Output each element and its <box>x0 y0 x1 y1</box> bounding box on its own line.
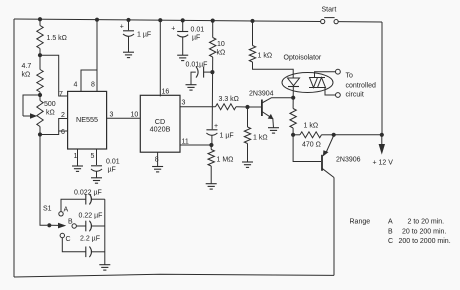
capacitor C2 1 uF bypass <box>120 20 151 52</box>
resistor R1 1.5 k&#937; <box>37 19 67 55</box>
svg-text:circuit: circuit <box>346 92 364 99</box>
U1 pin labels <box>59 82 114 161</box>
capacitor C8 2.2 uF (range C) <box>62 236 105 258</box>
svg-text:B: B <box>388 228 393 235</box>
terminal output bottom <box>336 93 341 98</box>
wire S1 capacitor bus to ground <box>104 199 106 265</box>
node R2/potentiometer junction <box>38 93 42 97</box>
node R10/Q2 emitter junction <box>332 133 336 137</box>
node rail/C2 junction <box>126 18 130 22</box>
svg-text:470 Ω: 470 Ω <box>302 142 321 149</box>
node LED cathode / Q1 collector junction <box>291 96 295 100</box>
ground at Q1 emitter <box>268 127 279 133</box>
svg-text:A: A <box>388 219 393 226</box>
svg-text:10: 10 <box>131 112 139 119</box>
svg-text:1 µF: 1 µF <box>137 32 151 39</box>
svg-text:To: To <box>346 73 354 80</box>
capacitor C6 0.022 uF (range A) <box>61 190 105 212</box>
node pot bottom / pin2-6 junction <box>38 132 42 136</box>
resistor R6 1 M&#937; <box>208 145 233 184</box>
svg-text:8: 8 <box>155 157 159 164</box>
node +12V junction <box>380 133 384 137</box>
capacitor C1 0.01 uF on NE555 pin 5 <box>91 149 120 178</box>
resistor R10 470 &#937; <box>293 132 334 149</box>
svg-text:0.01: 0.01 <box>191 27 205 34</box>
wire triac MT1 to output terminal <box>325 88 336 96</box>
wire junction to Q1 base <box>248 106 262 108</box>
svg-text:7: 7 <box>59 91 63 98</box>
label To controlled circuit <box>346 73 376 99</box>
svg-text:10: 10 <box>217 41 225 48</box>
U2 pin labels <box>131 89 189 164</box>
svg-text:11: 11 <box>182 139 189 146</box>
wire R4 bottom down to C5 <box>211 57 214 129</box>
svg-text:0.022 µF: 0.022 µF <box>74 190 102 197</box>
svg-text:controlled: controlled <box>346 83 376 90</box>
resistor R9 1 k&#937; <box>290 98 318 135</box>
label Range table <box>350 219 451 246</box>
U3 internal triac <box>309 78 326 88</box>
power +12V supply arrow <box>373 135 394 167</box>
svg-text:16: 16 <box>162 89 170 96</box>
svg-text:5: 5 <box>91 153 95 160</box>
svg-text:1 kΩ: 1 kΩ <box>258 53 273 60</box>
svg-text:0.01: 0.01 <box>106 159 120 166</box>
svg-text:3.3 kΩ: 3.3 kΩ <box>219 96 239 103</box>
resistor R7 1 k&#937; LED feed <box>249 21 272 62</box>
node rail/R7 junction <box>250 19 254 23</box>
svg-text:S1: S1 <box>43 206 52 213</box>
svg-text:kΩ: kΩ <box>217 50 226 57</box>
terminal output top <box>336 69 341 74</box>
wire Q2 collector to bottom rail <box>333 178 335 276</box>
svg-text:0.22 µF: 0.22 µF <box>79 213 103 220</box>
svg-text:20 to 200 min.: 20 to 200 min. <box>402 228 446 235</box>
ground below C4 <box>186 84 197 90</box>
wire junction to +12V rail <box>334 134 382 136</box>
svg-text:4020B: 4020B <box>150 125 171 134</box>
svg-text:3: 3 <box>110 112 114 119</box>
wire top rail (+12V bus) <box>14 19 321 22</box>
svg-text:4: 4 <box>74 82 78 89</box>
svg-text:+ 12 V: + 12 V <box>373 160 394 167</box>
svg-text:kΩ: kΩ <box>22 72 31 79</box>
resistor R8 1 k&#937; base bleed <box>244 107 267 162</box>
wire NE555 pin 3 to CD4020B pin 10 <box>107 117 141 119</box>
ground at CD4020B pin 8 <box>152 166 163 172</box>
node rail/pin8 junction <box>95 18 99 22</box>
svg-text:2: 2 <box>61 112 65 119</box>
wire pin 8 vertical from rail <box>96 20 98 92</box>
svg-text:µF: µF <box>108 167 116 174</box>
wire triac MT2 to output terminal <box>315 72 336 78</box>
wire left border (rail down left side) <box>13 19 15 277</box>
node top rail / R1 junction <box>38 17 42 21</box>
svg-text:Start: Start <box>322 7 337 14</box>
U3 internal LED <box>288 78 300 98</box>
capacitor C3 0.01 uF bypass <box>171 20 204 55</box>
node R4/C4 junction <box>210 70 214 74</box>
S1 contact B <box>68 219 76 229</box>
svg-text:1 µF: 1 µF <box>220 133 234 140</box>
node rail/R4 junction <box>211 19 215 23</box>
node rail/pin16 junction <box>158 18 162 22</box>
svg-text:3: 3 <box>182 100 186 107</box>
wire CD4020B pin 3 output <box>180 106 216 108</box>
svg-text:4.7: 4.7 <box>22 63 32 70</box>
node R9/R10/Q2 base junction <box>291 133 295 137</box>
svg-text:NE555: NE555 <box>76 115 98 124</box>
counter U2 CD4020B <box>140 95 180 152</box>
wire CD4020B pin 16 to top rail <box>159 20 161 96</box>
S1 contact C <box>60 233 70 243</box>
wire NE555 pin 6 spur <box>59 130 68 132</box>
op-amp/timer U1 NE555 <box>68 91 107 149</box>
node R1/R2 junction <box>38 53 42 57</box>
wire CD4020B pin 11 to C5 <box>180 144 211 146</box>
ground below S1 capacitors <box>99 264 110 270</box>
node R5/Q1 base/R8 junction <box>245 105 249 109</box>
ground below C1 <box>91 177 102 183</box>
svg-text:Optoisolator: Optoisolator <box>284 55 322 62</box>
wire bottom rail <box>14 274 334 277</box>
wire top rail right segment <box>338 21 382 23</box>
resistor R5 3.3 k&#937; <box>216 96 248 110</box>
switch S1 wiper arrow <box>43 206 66 229</box>
svg-text:C: C <box>388 238 393 245</box>
capacitor C4 0.01 uF to ground <box>186 62 213 85</box>
ground below R8 <box>242 162 253 168</box>
svg-text:2 to 20 min.: 2 to 20 min. <box>408 219 445 226</box>
capacitor C5 1 uF coupling <box>206 123 233 145</box>
svg-text:A: A <box>64 207 69 214</box>
ground at NE555 pin 1 <box>72 166 83 172</box>
wire NE555 pin 1 to ground <box>77 149 79 166</box>
svg-text:2N3904: 2N3904 <box>249 91 274 98</box>
svg-text:2N3906: 2N3906 <box>336 157 361 164</box>
wire CD4020B pin 8 to ground <box>157 152 159 166</box>
node S1 wiper <box>47 223 51 227</box>
svg-text:+: + <box>171 26 175 33</box>
S1 contact A <box>59 207 69 217</box>
resistor R2 4.7 k&#937; <box>22 55 44 95</box>
wire pot junction down to S1 wiper <box>40 135 47 226</box>
node rail/C3 junction <box>181 18 185 22</box>
svg-text:200 to 2000 min.: 200 to 2000 min. <box>399 238 451 245</box>
svg-text:2.2 µF: 2.2 µF <box>80 236 100 243</box>
svg-text:1.5 kΩ: 1.5 kΩ <box>47 35 67 42</box>
ground below C2 <box>123 52 134 58</box>
svg-text:+: + <box>214 123 218 130</box>
svg-text:0.01µF: 0.01µF <box>186 62 208 69</box>
pushbutton switch Start <box>321 7 339 24</box>
svg-text:B: B <box>68 219 73 226</box>
node C5/pin11/R6 junction <box>209 143 213 147</box>
svg-text:+: + <box>120 24 124 31</box>
svg-text:kΩ: kΩ <box>46 110 55 117</box>
resistor R4 10 k&#937; <box>210 21 226 57</box>
capacitor C7 0.22 uF (range B) <box>76 213 104 232</box>
svg-text:500: 500 <box>44 101 56 108</box>
wire pot junction to NE555 pins 2 and 6 <box>40 119 68 135</box>
wire R7 to optoisolator LED anode <box>253 62 294 78</box>
svg-text:1 MΩ: 1 MΩ <box>217 157 234 164</box>
svg-text:1 kΩ: 1 kΩ <box>253 135 268 142</box>
wire R1 bottom to NE555 pin 7 <box>40 55 68 96</box>
wire NE555 pins 4,8 to top rail <box>81 70 97 91</box>
svg-text:C: C <box>66 236 71 243</box>
ground below R6 <box>206 183 217 189</box>
wire Q2 base from R9/R10 junction <box>293 135 321 162</box>
wire right rail <box>381 22 383 135</box>
svg-text:6: 6 <box>61 129 65 136</box>
svg-text:Range: Range <box>350 219 371 226</box>
potentiometer R3 500 k&#937; (rheostat wiper) <box>23 95 56 135</box>
ground below C3 <box>177 55 188 61</box>
transistor Q2 2N3906 <box>322 136 361 178</box>
transistor Q1 2N3904 <box>249 91 293 128</box>
svg-text:1 kΩ: 1 kΩ <box>304 123 319 130</box>
optoisolator U3 body <box>282 55 333 93</box>
svg-text:µF: µF <box>192 35 200 42</box>
svg-text:1: 1 <box>74 153 78 160</box>
svg-text:8: 8 <box>91 82 95 89</box>
